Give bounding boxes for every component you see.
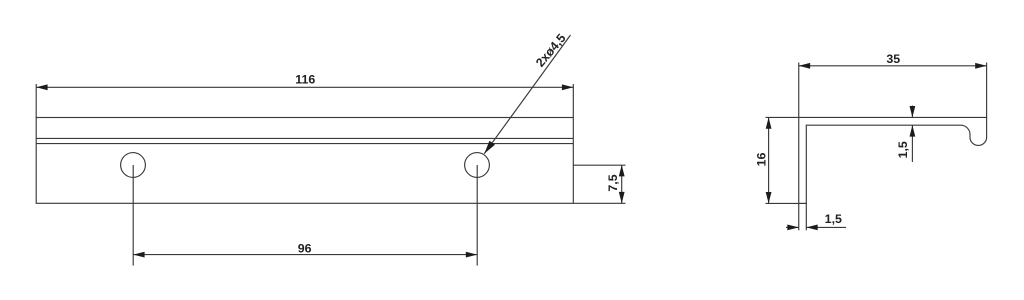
dim 1,5 flange upper arrow (down) [910, 106, 916, 117]
dim 96 line [133, 254, 477, 256]
dim 16 arrow down [766, 192, 772, 203]
dim 35 line [799, 65, 987, 67]
dim 35 arrow right [975, 63, 986, 69]
dim 1,5 flange upper shaft [911, 106, 913, 118]
dim 16 extension bottom [766, 202, 807, 204]
svg-text:1,5: 1,5 [896, 141, 910, 158]
cross-section profile outline [799, 117, 987, 203]
front view: part outline [36, 118, 573, 204]
svg-text:1,5: 1,5 [825, 212, 842, 226]
dim 16 line [768, 117, 770, 203]
dim 116 extension right [572, 84, 574, 118]
dim 7,5 extension bottom [573, 202, 625, 204]
dim 35 arrow left [799, 63, 810, 69]
dim 116 extension left [35, 84, 37, 118]
front view: groove line upper [36, 137, 573, 139]
hole right [465, 153, 490, 178]
dim 1,5 leg left tail [786, 226, 799, 228]
svg-text:16: 16 [754, 153, 768, 167]
dim 116 arrow left [36, 84, 47, 90]
leader 2x dia 4,5 arrowhead [484, 141, 495, 154]
dim 7,5 extension top [573, 164, 625, 166]
dim 96 arrow right [466, 252, 477, 258]
front view: groove line lower [36, 143, 573, 145]
dim 16 extension top [766, 116, 799, 118]
hole left [121, 153, 146, 178]
svg-text:35: 35 [886, 52, 900, 66]
svg-text:2xø4,5: 2xø4,5 [533, 31, 569, 70]
dim 1,5 leg arrow right (points left) [806, 225, 817, 231]
dim 116 line [36, 86, 573, 88]
dim 96 extension right [476, 165, 478, 266]
svg-text:116: 116 [295, 73, 315, 87]
dim 1,5 flange lower shaft [911, 125, 913, 162]
dim 116 arrow right [562, 84, 573, 90]
svg-text:7,5: 7,5 [606, 174, 620, 191]
dim 1,5 leg extension right [805, 203, 807, 230]
leader 2x dia 4,5 line [484, 35, 570, 154]
dim 7,5 arrow up [619, 165, 625, 176]
dim 1,5 leg right tail [806, 226, 846, 228]
dim 35 extension left [798, 63, 800, 118]
dim 96 extension left [132, 165, 134, 266]
dim 16 arrow up [766, 117, 772, 128]
dim 7,5 arrow down [619, 192, 625, 203]
dim 7,5 line [621, 165, 623, 203]
dim 1,5 flange lower arrow (up) [910, 125, 916, 136]
dim 35 extension right [986, 63, 988, 118]
dim 1,5 leg extension left [798, 203, 800, 230]
dim 1,5 leg arrow left (points right) [787, 225, 798, 231]
dim 96 arrow left [133, 252, 144, 258]
svg-text:96: 96 [298, 241, 312, 255]
